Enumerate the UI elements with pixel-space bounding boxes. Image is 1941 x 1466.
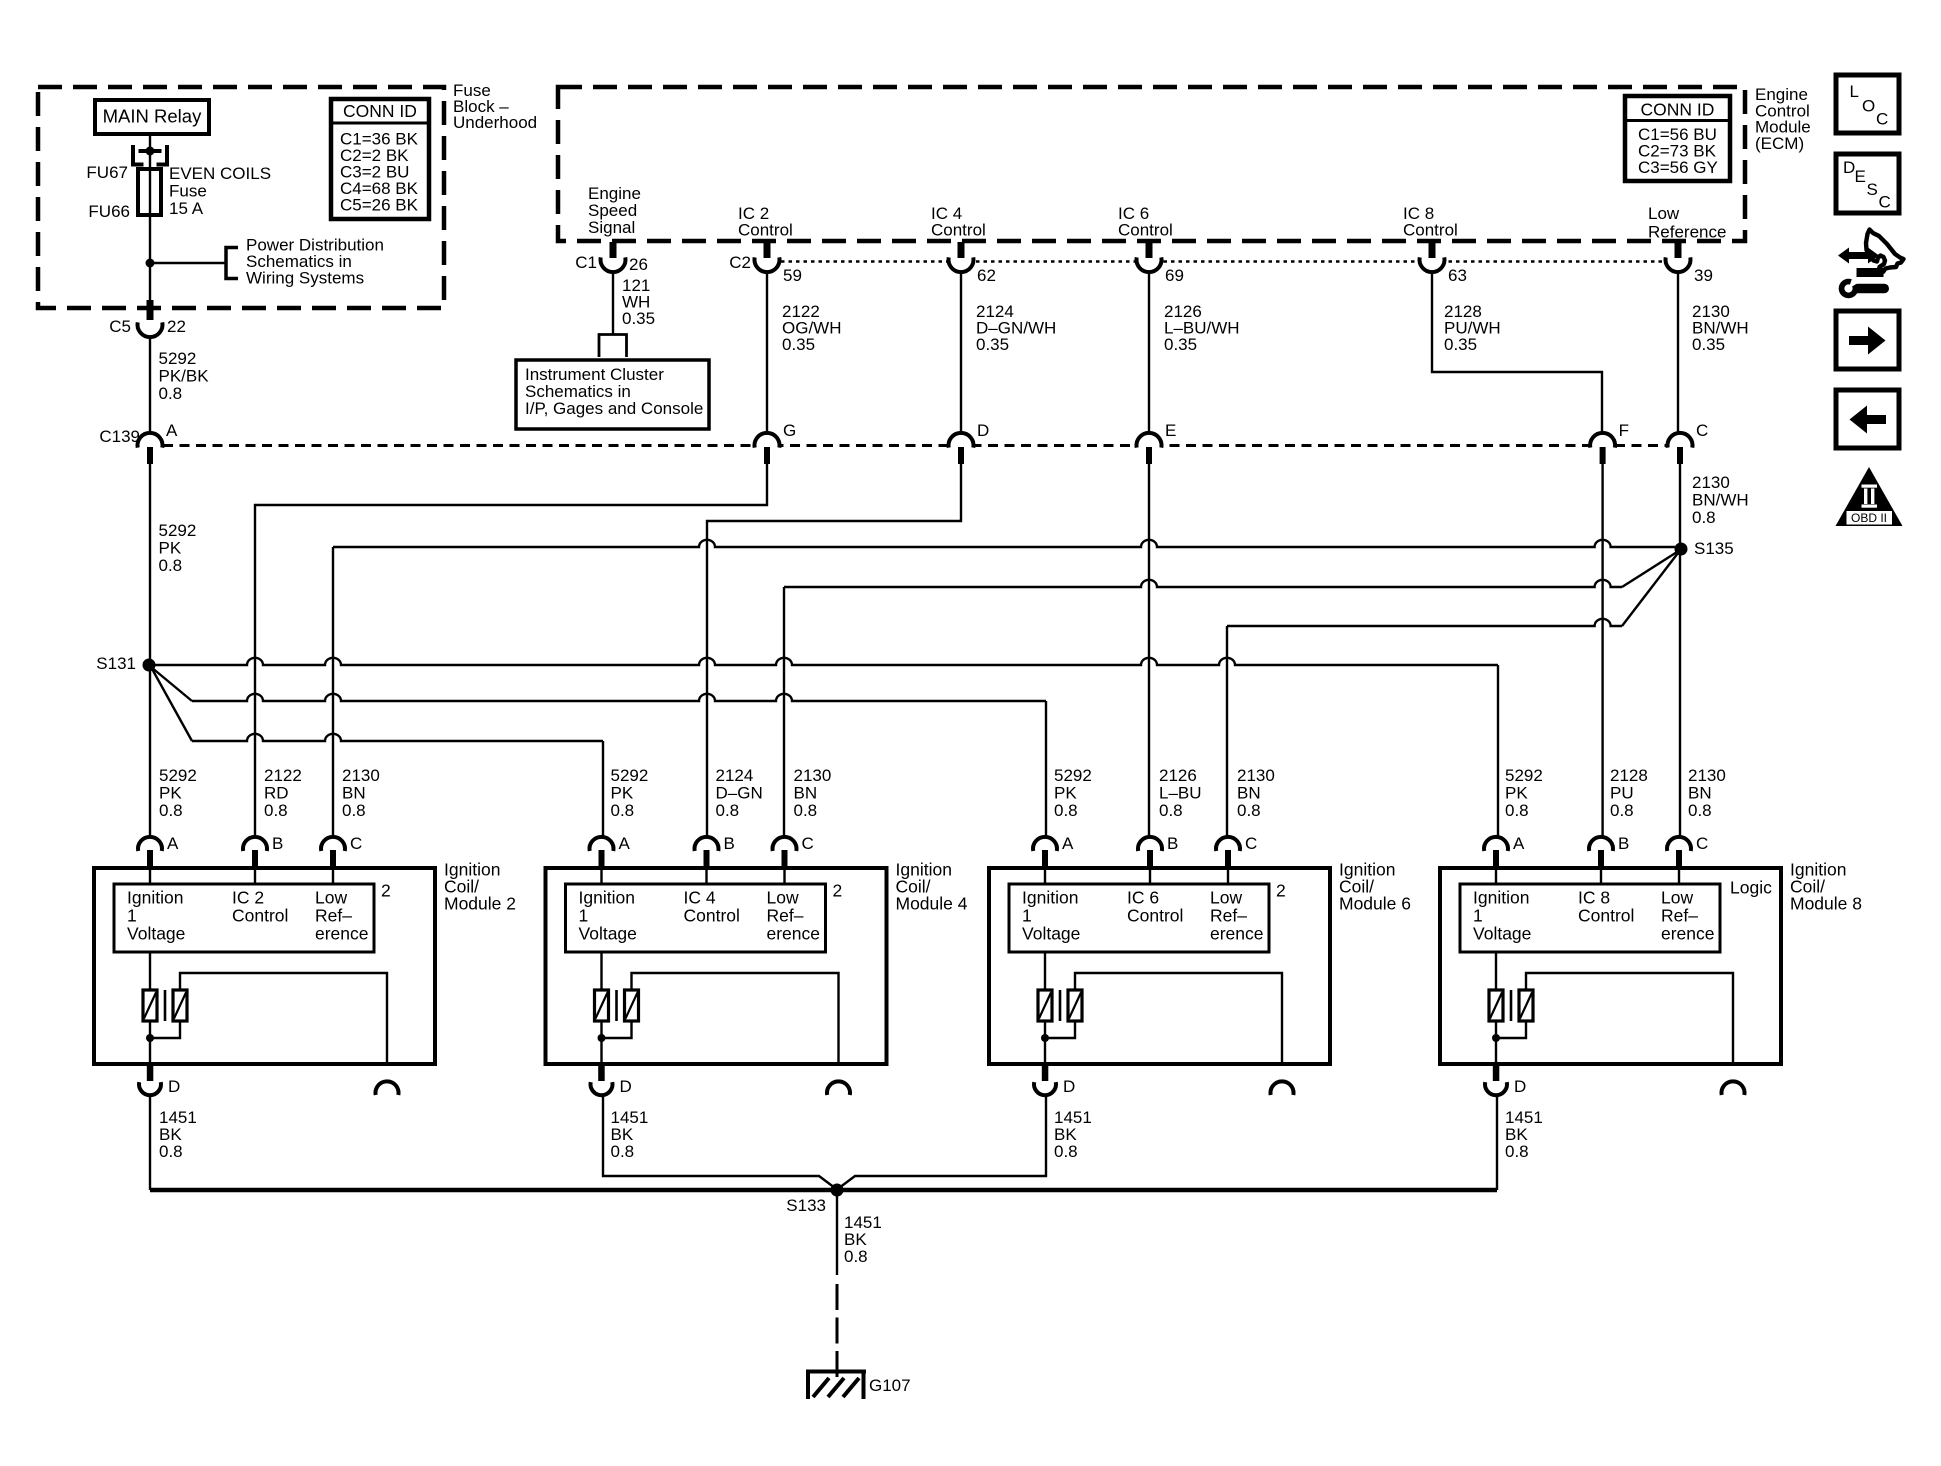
svg-text:(ECM): (ECM) — [1755, 134, 1804, 153]
CONN ID table (ECM) — [1625, 96, 1730, 181]
svg-text:5292: 5292 — [159, 349, 197, 368]
svg-text:C2: C2 — [729, 253, 751, 272]
ignition coil/module 4 connectors A B C — [590, 837, 614, 851]
svg-text:PK: PK — [1054, 784, 1077, 803]
svg-text:C: C — [1876, 110, 1888, 129]
svg-text:E: E — [1855, 167, 1866, 186]
S135 branch 2 (2130 to module 4 C) — [784, 580, 1622, 587]
svg-text:D: D — [1843, 158, 1855, 177]
svg-text:63: 63 — [1448, 266, 1467, 285]
module 8 coil secondary winding — [1519, 990, 1533, 1021]
icon: diagnostic arrows and wrench — [1838, 248, 1879, 264]
module 2 coil core — [164, 990, 167, 1021]
ECM connector row: fine dotted C2 face line — [781, 260, 1665, 263]
ignition coil/module 8 connectors A B C — [1484, 837, 1508, 851]
svg-text:BN: BN — [794, 784, 818, 803]
svg-text:Low: Low — [1661, 888, 1693, 908]
svg-text:S: S — [1867, 180, 1878, 199]
svg-text:S133: S133 — [786, 1196, 826, 1215]
svg-text:FU66: FU66 — [88, 202, 130, 221]
svg-text:F: F — [1619, 421, 1629, 440]
svg-text:1: 1 — [1473, 906, 1483, 926]
svg-text:59: 59 — [783, 266, 802, 285]
svg-text:5292: 5292 — [159, 766, 197, 785]
wire 2128 to module 8 B — [1601, 464, 1603, 838]
wire 2126 to module 6 B — [1148, 464, 1150, 838]
svg-text:IC 6: IC 6 — [1127, 888, 1159, 908]
ignition coil/module 6 box — [989, 868, 1330, 1064]
svg-text:PK: PK — [611, 784, 634, 803]
svg-text:Ignition: Ignition — [1473, 888, 1529, 908]
svg-text:Underhood: Underhood — [453, 113, 537, 132]
svg-text:69: 69 — [1165, 266, 1184, 285]
svg-text:A: A — [1062, 834, 1074, 853]
svg-text:22: 22 — [167, 317, 186, 336]
ignition coil/module 2 connectors A B C — [138, 837, 162, 851]
svg-text:2126: 2126 — [1159, 766, 1197, 785]
svg-text:5292: 5292 — [1505, 766, 1543, 785]
C139 connector E — [1136, 433, 1161, 448]
relay terminal bracket left — [133, 145, 144, 165]
svg-text:D: D — [1514, 1077, 1526, 1096]
wire 121 WH — [612, 272, 614, 335]
svg-text:Voltage: Voltage — [127, 924, 185, 944]
wire: module 2 D to S133 — [149, 1095, 151, 1190]
svg-text:Voltage: Voltage — [1473, 924, 1531, 944]
svg-text:RD: RD — [264, 784, 289, 803]
C139 connector A — [138, 433, 163, 448]
svg-text:2: 2 — [1276, 881, 1286, 901]
svg-text:D: D — [977, 421, 989, 440]
svg-text:S131: S131 — [96, 654, 136, 673]
svg-text:0.8: 0.8 — [1237, 801, 1261, 820]
svg-text:C: C — [350, 834, 362, 853]
svg-text:Signal: Signal — [588, 218, 635, 237]
svg-text:0.8: 0.8 — [159, 1142, 183, 1161]
svg-text:0.8: 0.8 — [844, 1247, 868, 1266]
svg-text:PK: PK — [159, 539, 182, 558]
C139 connector D — [949, 433, 974, 448]
svg-text:0.35: 0.35 — [1444, 335, 1477, 354]
svg-text:0.8: 0.8 — [1688, 801, 1712, 820]
ignition coil/module 4 box — [546, 868, 887, 1064]
ECM connector pin 26 — [601, 257, 626, 272]
connector C139 dashed line — [163, 444, 1666, 447]
svg-text:BN/WH: BN/WH — [1692, 491, 1749, 510]
module 8 inner terminal box — [1460, 884, 1720, 952]
svg-text:0.8: 0.8 — [1505, 801, 1529, 820]
ECM connector pin 39 — [1666, 257, 1691, 272]
svg-text:2130: 2130 — [1237, 766, 1275, 785]
svg-text:PU: PU — [1610, 784, 1634, 803]
wire: module 6 D joins bus — [839, 1095, 1046, 1188]
icon: OBD II triangle — [1836, 467, 1903, 526]
module 4 primary/secondary junction — [598, 1034, 606, 1042]
off-page bracket to instrument cluster — [599, 335, 627, 358]
module 2 coil primary winding — [149, 952, 151, 990]
svg-text:C: C — [802, 834, 814, 853]
off-page bracket — [226, 248, 238, 279]
svg-text:CONN ID: CONN ID — [343, 101, 417, 121]
wire 5292 PK (A to S131) — [149, 464, 151, 665]
svg-text:2: 2 — [833, 881, 843, 901]
svg-text:0.8: 0.8 — [794, 801, 818, 820]
svg-text:D–GN: D–GN — [716, 784, 763, 803]
svg-text:Wiring Systems: Wiring Systems — [246, 269, 364, 288]
module 6 coil primary winding — [1044, 952, 1046, 990]
svg-text:0.8: 0.8 — [159, 801, 183, 820]
svg-text:G: G — [783, 421, 796, 440]
module 6 primary/secondary junction — [1041, 1034, 1049, 1042]
svg-text:BN: BN — [342, 784, 366, 803]
module 4 coil secondary winding — [625, 990, 639, 1021]
fuse block dashed box — [38, 87, 444, 308]
svg-text:CONN ID: CONN ID — [1641, 100, 1715, 120]
S131 branch 1 (5292 to module 8 A) — [149, 658, 1498, 665]
svg-text:OBD II: OBD II — [1851, 511, 1887, 525]
splice S135 — [1675, 543, 1688, 556]
svg-text:0.8: 0.8 — [611, 801, 635, 820]
C139 connector C — [1668, 433, 1693, 448]
svg-text:Control: Control — [1127, 906, 1183, 926]
S135 branch 3 (2130 to module 6 C) — [1227, 619, 1622, 626]
svg-text:erence: erence — [1661, 924, 1715, 944]
svg-text:Low: Low — [1648, 204, 1680, 223]
svg-text:Voltage: Voltage — [1022, 924, 1080, 944]
module 6 coil secondary winding — [1068, 990, 1082, 1021]
wire 2128 PU/WH — [1432, 272, 1602, 434]
svg-text:I/P, Gages and Console: I/P, Gages and Console — [525, 399, 703, 418]
wire 5292 S131 to module 2 A — [149, 665, 151, 838]
icon: LOC box — [1836, 75, 1899, 133]
wire 5292 PK/BK — [149, 337, 151, 435]
splice S133 — [831, 1184, 844, 1197]
svg-text:Reference: Reference — [1648, 223, 1726, 242]
wire: module 4 D joins bus — [603, 1095, 835, 1188]
S131 branch 3 (5292 to module 4 A) — [151, 667, 192, 741]
svg-text:0.35: 0.35 — [782, 335, 815, 354]
svg-text:EVEN COILS: EVEN COILS — [169, 164, 271, 183]
svg-text:0.35: 0.35 — [622, 309, 655, 328]
svg-text:Ref–: Ref– — [315, 906, 352, 926]
svg-text:0.8: 0.8 — [264, 801, 288, 820]
svg-text:1: 1 — [1022, 906, 1032, 926]
svg-text:2128: 2128 — [1610, 766, 1648, 785]
module 2 primary/secondary junction — [146, 1034, 154, 1042]
svg-text:PK: PK — [159, 784, 182, 803]
icon: right arrow box — [1836, 311, 1899, 369]
wire 2126 L-BU/WH — [1148, 272, 1150, 434]
junction — [146, 259, 155, 268]
svg-text:B: B — [1618, 834, 1629, 853]
svg-text:A: A — [1513, 834, 1525, 853]
svg-text:Ref–: Ref– — [1210, 906, 1247, 926]
module 4 spark output terminal — [827, 1081, 850, 1095]
ground G107 — [806, 1370, 866, 1374]
module 8 coil primary winding — [1495, 952, 1497, 990]
svg-text:IC 4: IC 4 — [684, 888, 716, 908]
module 4 inner terminal box — [566, 884, 826, 952]
svg-text:0.8: 0.8 — [1054, 801, 1078, 820]
svg-text:Logic: Logic — [1730, 878, 1772, 898]
svg-text:Voltage: Voltage — [579, 924, 637, 944]
svg-text:Ignition: Ignition — [127, 888, 183, 908]
svg-text:Low: Low — [315, 888, 347, 908]
C139 connector G — [755, 433, 780, 448]
svg-text:Control: Control — [931, 221, 986, 240]
S131 branch 2 (5292 to module 6 A) — [151, 667, 192, 701]
svg-text:0.8: 0.8 — [159, 384, 183, 403]
svg-text:15 A: 15 A — [169, 199, 204, 218]
module 2 connector D — [147, 1064, 154, 1081]
module 6 inner terminal box — [1009, 884, 1269, 952]
svg-text:C5: C5 — [109, 317, 131, 336]
svg-text:C: C — [1696, 421, 1708, 440]
module 8 spark output terminal — [1722, 1081, 1745, 1095]
svg-text:C3=56 GY: C3=56 GY — [1638, 158, 1718, 177]
ignition coil/module 2 box — [94, 868, 435, 1064]
svg-text:Control: Control — [1403, 221, 1458, 240]
connector C5 pin 22 — [147, 300, 154, 320]
svg-text:0.8: 0.8 — [716, 801, 740, 820]
svg-text:Ref–: Ref– — [767, 906, 804, 926]
module 8 primary/secondary junction — [1492, 1034, 1500, 1042]
module 4 coil primary winding — [600, 952, 602, 990]
wire to power distribution note — [150, 262, 226, 264]
module 8 secondary loop — [1526, 973, 1733, 1064]
wire 2124 D-GN/WH — [960, 272, 962, 434]
svg-text:2: 2 — [381, 881, 391, 901]
svg-text:Ref–: Ref– — [1661, 906, 1698, 926]
svg-text:Control: Control — [1578, 906, 1634, 926]
svg-text:Module 8: Module 8 — [1790, 894, 1862, 914]
ignition coil/module 8 box — [1440, 868, 1781, 1064]
svg-text:PK/BK: PK/BK — [159, 367, 210, 386]
module 6 secondary loop — [1075, 973, 1282, 1064]
svg-text:L: L — [1850, 82, 1859, 101]
svg-text:C139: C139 — [99, 427, 140, 446]
svg-text:0.8: 0.8 — [1610, 801, 1634, 820]
svg-text:2130: 2130 — [342, 766, 380, 785]
svg-text:C5=26 BK: C5=26 BK — [340, 196, 419, 215]
fuse FU67/FU66 EVEN COILS 15 A — [138, 169, 161, 215]
svg-text:0.35: 0.35 — [1692, 335, 1725, 354]
module 6 coil core — [1059, 990, 1062, 1021]
relay terminal bracket right — [157, 145, 168, 165]
svg-text:O: O — [1862, 97, 1875, 116]
svg-text:0.8: 0.8 — [1505, 1142, 1529, 1161]
svg-text:erence: erence — [1210, 924, 1264, 944]
svg-text:0.35: 0.35 — [976, 335, 1009, 354]
ECM dashed box — [558, 87, 1745, 241]
svg-text:Low: Low — [767, 888, 799, 908]
module 6 spark output terminal — [1271, 1081, 1294, 1095]
wire 2124 to module 4 B — [707, 464, 961, 838]
svg-text:0.8: 0.8 — [159, 556, 183, 575]
svg-text:2124: 2124 — [716, 766, 754, 785]
svg-text:erence: erence — [767, 924, 821, 944]
module 8 connector D — [1493, 1064, 1500, 1081]
module 4 coil core — [615, 990, 618, 1021]
svg-text:FU67: FU67 — [86, 163, 128, 182]
svg-text:Module 6: Module 6 — [1339, 894, 1411, 914]
svg-text:IC 8: IC 8 — [1578, 888, 1610, 908]
wire 2122 to module 2 B — [255, 464, 767, 838]
module 8 coil core — [1510, 990, 1513, 1021]
relay terminal junction — [146, 147, 155, 156]
svg-text:A: A — [619, 834, 631, 853]
CONN ID table (fuse block) — [331, 99, 429, 219]
ECM connector pin 69 — [1136, 257, 1161, 272]
svg-text:Module 2: Module 2 — [444, 894, 516, 914]
svg-text:erence: erence — [315, 924, 369, 944]
svg-text:A: A — [167, 834, 179, 853]
wire: relay output — [149, 134, 151, 172]
svg-text:Module 4: Module 4 — [896, 894, 968, 914]
svg-text:2130: 2130 — [1692, 473, 1730, 492]
svg-text:26: 26 — [629, 255, 648, 274]
svg-text:2130: 2130 — [794, 766, 832, 785]
svg-text:C: C — [1245, 834, 1257, 853]
svg-text:C: C — [1879, 193, 1891, 212]
note: Instrument Cluster Schematics — [516, 360, 709, 429]
ECM connector pin 62 — [949, 257, 974, 272]
svg-text:5292: 5292 — [159, 521, 197, 540]
svg-text:0.8: 0.8 — [1692, 508, 1716, 527]
svg-text:BN: BN — [1688, 784, 1712, 803]
svg-text:Ignition: Ignition — [579, 888, 635, 908]
svg-text:BN: BN — [1237, 784, 1261, 803]
svg-text:Ignition: Ignition — [1022, 888, 1078, 908]
module 2 spark output terminal — [375, 1081, 398, 1095]
svg-text:MAIN Relay: MAIN Relay — [103, 105, 202, 126]
svg-text:C1: C1 — [575, 253, 597, 272]
svg-text:0.8: 0.8 — [342, 801, 366, 820]
svg-text:Control: Control — [738, 221, 793, 240]
wire 1451 BK to ground — [836, 1190, 838, 1275]
svg-text:A: A — [166, 421, 178, 440]
svg-text:D: D — [168, 1077, 180, 1096]
splice S131 — [143, 659, 156, 672]
ECM connector pin 59 — [755, 257, 780, 272]
svg-text:Fuse: Fuse — [169, 182, 207, 201]
module 4 connector D — [598, 1064, 605, 1081]
svg-text:5292: 5292 — [611, 766, 649, 785]
wire 2130 BN/WH — [1677, 272, 1679, 434]
svg-text:Control: Control — [684, 906, 740, 926]
svg-text:5292: 5292 — [1054, 766, 1092, 785]
C139 connector F — [1590, 433, 1615, 448]
svg-text:PK: PK — [1505, 784, 1528, 803]
svg-text:D: D — [620, 1077, 632, 1096]
wire 2122 OG/WH — [766, 272, 768, 434]
module 6 connector D — [1042, 1064, 1049, 1081]
svg-text:Control: Control — [232, 906, 288, 926]
S135 branch 1 (2130 to module 2 C) — [333, 540, 1675, 547]
svg-text:Low: Low — [1210, 888, 1242, 908]
svg-text:0.35: 0.35 — [1164, 335, 1197, 354]
svg-text:Control: Control — [1118, 221, 1173, 240]
svg-text:L–BU: L–BU — [1159, 784, 1202, 803]
ECM connector pin 63 — [1419, 257, 1444, 272]
icon: left arrow box — [1836, 390, 1899, 448]
svg-text:B: B — [1167, 834, 1178, 853]
wire 2130 BN/WH below S135 to module 8 C — [1679, 549, 1681, 838]
svg-text:0.8: 0.8 — [1054, 1142, 1078, 1161]
dashed wire to G107 — [836, 1284, 839, 1377]
svg-text:2130: 2130 — [1688, 766, 1726, 785]
svg-text:2122: 2122 — [264, 766, 302, 785]
icon: DESC box — [1836, 154, 1899, 213]
svg-text:B: B — [272, 834, 283, 853]
module 2 secondary loop — [180, 973, 387, 1064]
svg-text:IC 2: IC 2 — [232, 888, 264, 908]
ignition coil/module 6 connectors A B C — [1033, 837, 1057, 851]
ground bus 1451 — [150, 1188, 1497, 1193]
svg-text:B: B — [724, 834, 735, 853]
wire 2130 BN/WH to S135 — [1679, 464, 1681, 549]
svg-text:62: 62 — [977, 266, 996, 285]
module 2 coil secondary winding — [173, 990, 187, 1021]
relay K: MAIN Relay box — [95, 100, 209, 134]
svg-text:1: 1 — [127, 906, 137, 926]
module 2 inner terminal box — [114, 884, 374, 952]
svg-text:39: 39 — [1694, 266, 1713, 285]
wire: fuse to C5 — [149, 263, 151, 302]
svg-text:D: D — [1063, 1077, 1075, 1096]
svg-text:E: E — [1165, 421, 1176, 440]
svg-text:S135: S135 — [1694, 539, 1734, 558]
svg-text:G107: G107 — [869, 1376, 911, 1395]
wire: module 8 D to S133 — [1496, 1095, 1498, 1190]
svg-text:0.8: 0.8 — [1159, 801, 1183, 820]
module 4 secondary loop — [632, 973, 839, 1064]
svg-text:C: C — [1696, 834, 1708, 853]
svg-text:1: 1 — [579, 906, 589, 926]
svg-text:0.8: 0.8 — [611, 1142, 635, 1161]
